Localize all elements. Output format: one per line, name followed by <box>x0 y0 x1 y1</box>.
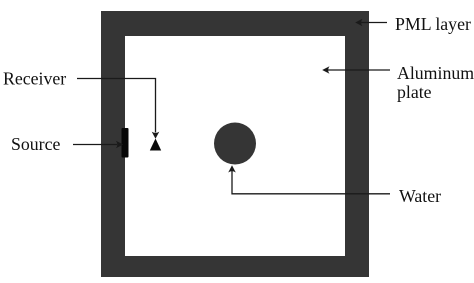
svg-text:PML layer: PML layer <box>395 14 471 34</box>
arrowhead pointing left into frame top-right <box>355 19 362 27</box>
svg-text:Source: Source <box>11 134 60 154</box>
wire: water leader (up from corner, then right to label) <box>232 171 390 194</box>
arrowhead pointing left into white plate area <box>322 66 329 74</box>
wire: receiver leader (horizontal then down) <box>77 79 156 133</box>
PML layer frame (dark square ring) <box>101 11 369 277</box>
source (black bar on inner-left wall) <box>122 128 129 158</box>
arrowhead pointing down at receiver <box>152 132 160 139</box>
svg-text:Aluminum: Aluminum <box>397 63 474 83</box>
wire: aluminum plate leader <box>328 69 390 71</box>
arrowhead pointing up at circle bottom <box>228 165 236 172</box>
svg-text:plate: plate <box>397 82 432 102</box>
wire: PML layer leader <box>361 22 387 24</box>
water circle <box>214 123 256 165</box>
svg-text:Receiver: Receiver <box>3 69 66 89</box>
arrowhead pointing right at source bar <box>116 141 123 149</box>
wire: source leader <box>73 144 117 146</box>
svg-text:Water: Water <box>399 186 441 206</box>
receiver (small filled triangle) <box>150 139 161 151</box>
